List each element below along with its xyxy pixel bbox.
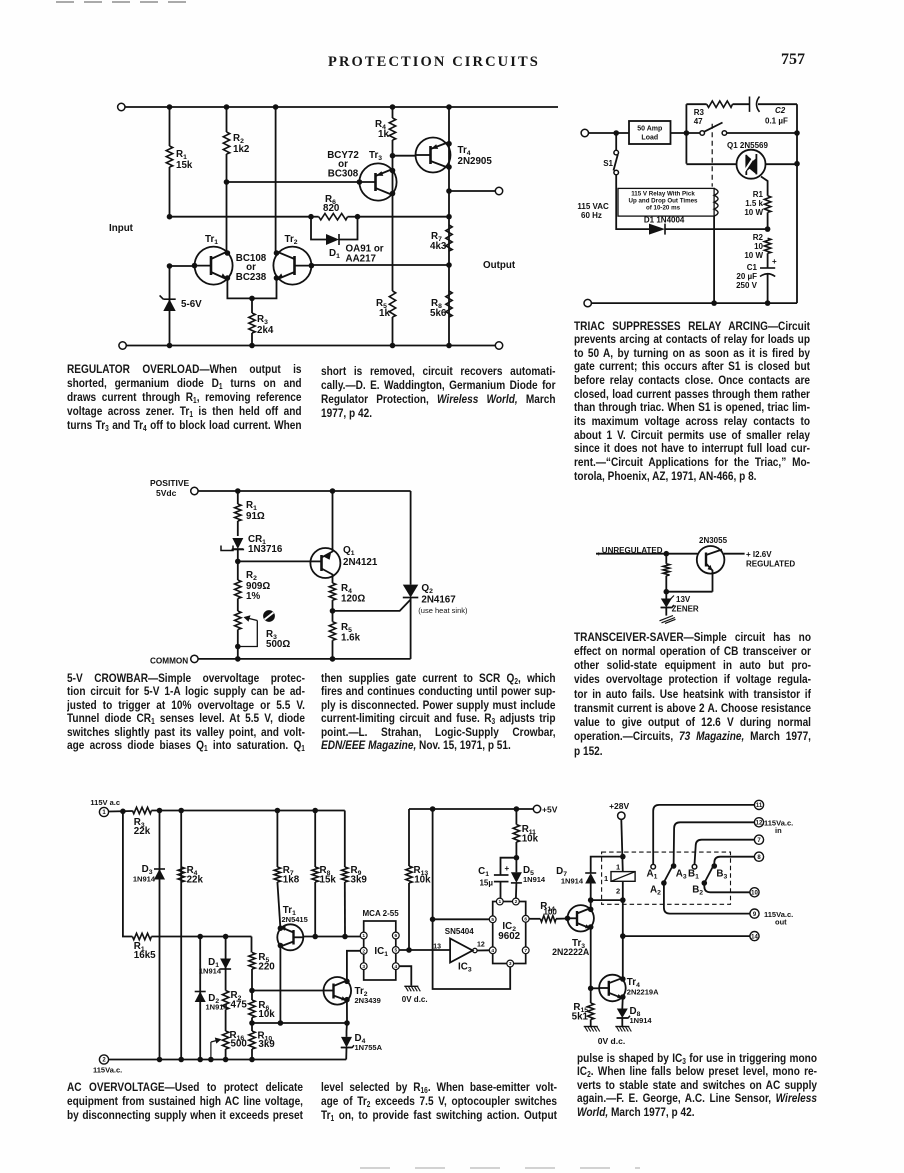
- svg-text:120Ω: 120Ω: [341, 594, 365, 605]
- node input-R6: [308, 214, 314, 220]
- resistor R9: [342, 811, 368, 937]
- optocoupler IC1 MCA 2-55: [360, 909, 399, 980]
- svg-text:SN5404: SN5404: [445, 927, 474, 936]
- svg-text:10k: 10k: [414, 875, 431, 886]
- svg-text:+ I2.6V: + I2.6V: [746, 550, 772, 559]
- wire switch to right rail: [727, 130, 800, 136]
- label +5V: [542, 805, 558, 815]
- svg-text:C1: C1: [747, 263, 758, 272]
- wire +5V branch to IC2 pin5 and pin3: [430, 809, 510, 989]
- svg-text:14: 14: [751, 934, 758, 940]
- potentiometer R16: [211, 1030, 247, 1060]
- svg-text:AA217: AA217: [346, 254, 377, 265]
- svg-text:3: 3: [362, 964, 365, 970]
- text block TRIAC SUPPRESSES RELAY ARCING: [574, 320, 810, 484]
- svg-text:5: 5: [394, 948, 397, 954]
- svg-text:0.1 µF: 0.1 µF: [765, 117, 788, 126]
- svg-text:9602: 9602: [498, 931, 520, 942]
- svg-text:A3: A3: [676, 869, 687, 881]
- svg-text:B3: B3: [716, 869, 727, 881]
- label UNREGULATED: [597, 546, 663, 558]
- svg-text:of 10-20 ms: of 10-20 ms: [646, 205, 681, 212]
- svg-text:220: 220: [258, 962, 275, 973]
- diode D3: [133, 811, 165, 1060]
- svg-text:2N4121: 2N4121: [343, 557, 378, 568]
- node R4-Tr4base: [390, 153, 416, 159]
- svg-text:2N4167: 2N4167: [421, 595, 456, 606]
- resistor R1: [166, 107, 193, 217]
- text block AC OVERVOLTAGE col1: [67, 1080, 303, 1122]
- wire A2 to terminal 9: [664, 883, 793, 927]
- svg-text:13V: 13V: [676, 595, 691, 604]
- svg-text:Q1 2N5569: Q1 2N5569: [727, 141, 768, 150]
- svg-text:6: 6: [394, 933, 397, 939]
- resistor R2: [744, 233, 770, 260]
- svg-text:3: 3: [509, 961, 512, 967]
- resistor R5: [249, 937, 275, 991]
- svg-text:S1: S1: [603, 159, 613, 168]
- svg-text:C2: C2: [775, 106, 786, 115]
- wire Tr4 base line: [591, 987, 600, 989]
- capacitor C2: [733, 97, 798, 126]
- wire bottom rail: [584, 299, 797, 306]
- zener diode 5-6V: [160, 266, 203, 346]
- svg-text:10: 10: [751, 891, 758, 897]
- wire top rail: [118, 103, 558, 110]
- svg-text:10k: 10k: [258, 1009, 275, 1020]
- svg-text:50 Amp: 50 Amp: [637, 126, 662, 133]
- svg-text:6: 6: [524, 917, 527, 923]
- svg-text:R1: R1: [753, 190, 764, 199]
- top edge scan artifacts: [56, 1, 188, 3]
- svg-text:1N755A: 1N755A: [355, 1043, 383, 1052]
- wire S1 down to D1 line: [616, 175, 649, 229]
- transistor Tr3: [357, 150, 397, 201]
- text block TRANSCEIVER-SAVER: [574, 630, 811, 758]
- wire Tr2 collector feed: [275, 107, 277, 255]
- svg-text:+: +: [505, 864, 510, 873]
- relay switch contacts: [700, 123, 727, 136]
- wire R3C2 branch: [686, 103, 706, 105]
- svg-text:1N3716: 1N3716: [248, 544, 283, 555]
- contact A3-A2 switch: [650, 818, 793, 897]
- label POSITIVE 5Vdc: [150, 478, 190, 498]
- diode D1: [199, 937, 231, 991]
- svg-text:+: +: [772, 257, 777, 266]
- resistor R7: [274, 811, 299, 929]
- transistor 2N3055: [697, 536, 745, 592]
- dashed linkage line: [711, 124, 713, 187]
- svg-text:13: 13: [433, 944, 441, 951]
- label +12.6V REGULATED: [746, 550, 795, 569]
- relay coil: [714, 188, 718, 303]
- diode D7: [556, 854, 625, 900]
- svg-text:D1 1N4004: D1 1N4004: [644, 216, 685, 225]
- relay box 115V Relay: [618, 188, 714, 216]
- svg-text:22k: 22k: [187, 875, 204, 886]
- svg-text:1k: 1k: [378, 129, 389, 140]
- wire +28V vertical: [620, 819, 626, 1008]
- svg-text:16k5: 16k5: [134, 950, 156, 961]
- svg-text:C1: C1: [478, 866, 489, 878]
- svg-text:2N3439: 2N3439: [355, 996, 381, 1005]
- wire R4 branch down: [392, 156, 394, 291]
- screwdriver adjust symbol: [264, 611, 275, 622]
- wire gate line: [330, 600, 411, 614]
- capacitor C1: [478, 858, 516, 899]
- svg-text:15k: 15k: [176, 160, 193, 171]
- ground R15: [584, 1027, 600, 1032]
- resistor R3: [132, 807, 151, 837]
- wire emitter return: [664, 589, 713, 595]
- transistor Tr3: [552, 905, 594, 957]
- svg-text:1: 1: [362, 933, 365, 939]
- resistor: [663, 554, 669, 592]
- svg-text:12: 12: [477, 942, 485, 949]
- svg-text:500Ω: 500Ω: [266, 639, 290, 650]
- wire IC1 pin4 to ground: [399, 966, 411, 985]
- svg-text:(use heat sink): (use heat sink): [418, 606, 468, 615]
- svg-text:Tr3: Tr3: [369, 150, 382, 162]
- resistor R2: [222, 990, 247, 1031]
- svg-text:1.6k: 1.6k: [341, 633, 361, 644]
- text block 5-V CROWBAR col2: [321, 672, 556, 753]
- contact A1: [647, 800, 764, 880]
- page number 757: [781, 51, 805, 69]
- resistor R3: [694, 101, 733, 126]
- resistor R13: [406, 809, 431, 950]
- wire top rail left: [109, 809, 133, 815]
- diode D1 1N4004: [644, 216, 770, 235]
- transistor Tr2: [273, 234, 314, 285]
- wire output line: [449, 187, 503, 194]
- relay coil box: [604, 863, 635, 896]
- text block REGULATOR OVERLOAD col2: [321, 364, 556, 420]
- resistor R3: [249, 298, 274, 345]
- wire load to switch: [613, 130, 699, 136]
- mono IC2 9602: [489, 898, 529, 967]
- diode D2: [195, 937, 229, 1060]
- resistor R6: [311, 194, 358, 220]
- wire IC1 pin5 line: [399, 947, 450, 953]
- svg-text:Q1: Q1: [343, 545, 355, 557]
- svg-text:1: 1: [498, 899, 501, 905]
- svg-text:BC308: BC308: [328, 169, 359, 180]
- wire top rail: [191, 487, 411, 494]
- resistor R1: [132, 933, 156, 961]
- svg-text:10: 10: [754, 242, 763, 251]
- wire 115VAC top line: [581, 129, 629, 136]
- svg-text:820: 820: [323, 203, 340, 214]
- svg-text:2N5415: 2N5415: [282, 915, 308, 924]
- wire line to terminal 14: [623, 932, 759, 941]
- svg-text:3k9: 3k9: [258, 1039, 275, 1050]
- svg-text:A2: A2: [650, 885, 661, 897]
- svg-text:2N2222A: 2N2222A: [552, 947, 590, 957]
- svg-text:100: 100: [544, 907, 558, 916]
- svg-text:in: in: [775, 826, 782, 835]
- svg-text:3k9: 3k9: [351, 875, 368, 886]
- svg-text:20 µF: 20 µF: [736, 272, 757, 281]
- svg-text:1k2: 1k2: [233, 144, 250, 155]
- svg-text:B1: B1: [688, 869, 699, 881]
- resistor R5: [376, 291, 396, 346]
- wire bottom rail: [93, 1055, 346, 1075]
- svg-text:Input: Input: [109, 223, 134, 234]
- svg-text:5: 5: [491, 917, 494, 923]
- svg-text:60 Hz: 60 Hz: [581, 211, 602, 220]
- svg-text:D1: D1: [329, 248, 340, 260]
- resistor R4: [375, 107, 396, 156]
- svg-text:1: 1: [604, 874, 608, 883]
- svg-text:2: 2: [515, 899, 518, 905]
- zener D8: [617, 1006, 653, 1027]
- bottom edge scan artifacts: [360, 1167, 640, 1169]
- contact B1: [688, 835, 764, 881]
- wire input: [596, 551, 698, 557]
- svg-text:MCA 2-55: MCA 2-55: [363, 909, 400, 918]
- zener diode 13V: [661, 592, 699, 616]
- label 115 VAC 60 Hz: [577, 202, 609, 220]
- SCR Q2: [403, 491, 468, 659]
- svg-text:out: out: [775, 918, 787, 927]
- node R6-right: [355, 214, 452, 220]
- svg-text:1N914: 1N914: [133, 875, 156, 884]
- wire B2 to terminal 10: [704, 883, 759, 897]
- svg-text:1%: 1%: [246, 591, 260, 602]
- svg-text:7: 7: [524, 948, 527, 954]
- resistor R10: [249, 1023, 275, 1060]
- svg-text:1k: 1k: [379, 308, 390, 319]
- wire bottom rail: [191, 655, 411, 662]
- svg-text:+28V: +28V: [609, 801, 629, 811]
- svg-text:0V d.c.: 0V d.c.: [598, 1036, 625, 1046]
- svg-text:2: 2: [362, 949, 365, 955]
- svg-text:BC238: BC238: [236, 272, 267, 283]
- svg-text:IC3: IC3: [458, 962, 472, 974]
- terminal 1 115Vac: [90, 798, 120, 817]
- wire top rail right: [409, 805, 541, 812]
- svg-text:1.5 k: 1.5 k: [745, 199, 763, 208]
- resistor R4: [178, 811, 203, 1060]
- svg-text:Tr1: Tr1: [205, 234, 218, 246]
- svg-text:91Ω: 91Ω: [246, 511, 265, 522]
- svg-text:Tr2: Tr2: [285, 234, 298, 246]
- resistor R4: [329, 583, 365, 611]
- transistor Q1: [310, 491, 377, 583]
- ground: [660, 616, 676, 624]
- svg-text:IC1: IC1: [374, 946, 388, 958]
- svg-text:10 W: 10 W: [744, 251, 763, 260]
- transistor Tr4: [599, 975, 659, 1002]
- label Input: [109, 223, 134, 234]
- svg-text:R3: R3: [694, 108, 705, 117]
- switch S1: [603, 133, 618, 175]
- svg-text:5k6: 5k6: [430, 308, 447, 319]
- svg-text:4: 4: [394, 964, 397, 970]
- wire Tr2 emitter down: [346, 1000, 349, 1031]
- text block REGULATOR OVERLOAD col1: [67, 362, 302, 432]
- label BCY72 or BC308: [327, 150, 359, 180]
- diode D1: [311, 217, 384, 265]
- svg-text:Q2: Q2: [421, 583, 433, 595]
- wire output branch: [446, 107, 452, 346]
- page header: [328, 54, 540, 71]
- capacitor C1: [736, 253, 777, 306]
- inverter IC3 SN5404: [433, 927, 489, 974]
- resistor R2: [223, 107, 250, 255]
- wire Q1 base line: [235, 559, 311, 565]
- svg-text:2k4: 2k4: [257, 325, 274, 336]
- svg-text:1: 1: [616, 863, 620, 872]
- label COMMON: [150, 657, 188, 666]
- svg-text:0V d.c.: 0V d.c.: [402, 995, 428, 1004]
- svg-text:500: 500: [231, 1039, 248, 1050]
- svg-text:15k: 15k: [320, 875, 337, 886]
- potentiometer R3: [235, 599, 291, 659]
- text block 5-V CROWBAR col1: [67, 672, 305, 753]
- svg-text:2N3055: 2N3055: [699, 536, 728, 545]
- svg-text:5k1: 5k1: [572, 1012, 589, 1023]
- wire top rail: [151, 808, 344, 814]
- svg-text:1N914: 1N914: [199, 967, 222, 976]
- svg-text:115 VAC: 115 VAC: [577, 202, 609, 211]
- svg-text:250 V: 250 V: [736, 281, 758, 290]
- label 0V dc: [598, 1036, 625, 1046]
- tunnel diode CR1: [221, 534, 283, 561]
- svg-text:5-6V: 5-6V: [181, 299, 202, 310]
- svg-text:Load: Load: [641, 135, 658, 142]
- svg-text:115 V Relay With Pick: 115 V Relay With Pick: [631, 191, 695, 198]
- wire Tr1 collector down: [279, 946, 281, 1024]
- transistor Tr1: [277, 905, 307, 950]
- wire R1 line: [151, 934, 251, 940]
- resistor R15: [572, 988, 594, 1026]
- svg-text:Output: Output: [483, 260, 516, 271]
- svg-text:A1: A1: [647, 869, 658, 881]
- svg-text:475: 475: [231, 1000, 248, 1011]
- svg-text:+5V: +5V: [542, 805, 558, 815]
- resistor R1: [744, 190, 770, 229]
- dashed relay enclosure: [602, 852, 731, 904]
- text block AC OVERVOLTAGE col3: [577, 1052, 817, 1120]
- svg-text:ZENER: ZENER: [672, 605, 699, 614]
- svg-text:POSITIVE: POSITIVE: [150, 478, 190, 488]
- resistor R14: [529, 901, 567, 922]
- load box 50 Amp Load: [629, 121, 671, 144]
- svg-text:Up and Drop Out Times: Up and Drop Out Times: [629, 198, 699, 205]
- wire bottom rail: [119, 342, 503, 349]
- svg-text:R2: R2: [753, 233, 764, 242]
- wire Tr1 base: [167, 263, 195, 269]
- svg-text:115Va.c.: 115Va.c.: [93, 1066, 122, 1075]
- svg-text:4k3: 4k3: [430, 241, 447, 252]
- svg-text:5Vdc: 5Vdc: [156, 488, 177, 498]
- wire Tr2 collector to IC1 pin2: [347, 951, 360, 982]
- label Output: [483, 260, 516, 271]
- wire Tr2 base line: [311, 262, 451, 268]
- ground D8: [615, 1027, 631, 1032]
- contact B3-B2 switch: [692, 852, 763, 897]
- wire Tr3 collector up to D7 node: [588, 897, 594, 909]
- label BC108 or BC238: [236, 253, 267, 283]
- svg-text:115V a.c: 115V a.c: [90, 798, 120, 807]
- resistor R5: [329, 611, 360, 659]
- resistor R8: [312, 811, 336, 937]
- wire R1 branch: [123, 811, 132, 936]
- svg-text:1N914: 1N914: [561, 876, 584, 885]
- resistor R1: [235, 491, 265, 536]
- transistor Tr4: [416, 138, 493, 173]
- svg-text:12: 12: [756, 821, 763, 827]
- wire input line: [167, 214, 311, 220]
- wire Tr3 base line: [224, 179, 360, 185]
- svg-text:1k8: 1k8: [283, 875, 300, 886]
- wire top branch verticals: [686, 104, 799, 303]
- svg-text:1N914: 1N914: [523, 875, 546, 884]
- zener D4: [341, 1031, 383, 1060]
- svg-text:2: 2: [616, 887, 620, 896]
- svg-text:47: 47: [694, 117, 703, 126]
- wire coil bottom node: [591, 897, 626, 903]
- svg-text:2N2905: 2N2905: [458, 156, 493, 167]
- ground 0Vdc IC1: [402, 986, 428, 1004]
- wire Tr1 Tr2 emitters to R3: [227, 278, 276, 301]
- resistor R6: [249, 991, 275, 1024]
- wire R6-R10 node line: [249, 1020, 350, 1026]
- svg-text:2N2219A: 2N2219A: [627, 988, 659, 997]
- label +28V: [609, 801, 629, 819]
- svg-text:11: 11: [756, 803, 763, 809]
- wire Tr3 emitter down: [588, 927, 594, 991]
- resistor R2: [235, 561, 271, 602]
- wire Q1 gate: [761, 177, 768, 196]
- resistor R7: [430, 225, 452, 252]
- svg-text:10k: 10k: [522, 834, 539, 845]
- resistor R11: [513, 809, 538, 858]
- wire R5-R6 node to Tr2 base: [249, 988, 323, 994]
- svg-text:B2: B2: [692, 885, 703, 897]
- svg-text:15µ: 15µ: [479, 879, 493, 888]
- svg-text:22k: 22k: [134, 826, 151, 837]
- svg-text:REGULATED: REGULATED: [746, 560, 795, 569]
- svg-text:4: 4: [491, 948, 494, 954]
- svg-text:10 W: 10 W: [744, 208, 763, 217]
- transistor Tr2: [324, 977, 381, 1005]
- resistor R8: [430, 291, 452, 319]
- text block AC OVERVOLTAGE col2: [321, 1080, 557, 1122]
- wire Tr1 base line: [303, 934, 363, 940]
- triac Q1: [686, 141, 797, 179]
- svg-text:1N914: 1N914: [630, 1016, 653, 1025]
- diode D5: [511, 855, 546, 898]
- svg-text:COMMON: COMMON: [150, 657, 188, 666]
- transistor Tr1: [192, 234, 233, 285]
